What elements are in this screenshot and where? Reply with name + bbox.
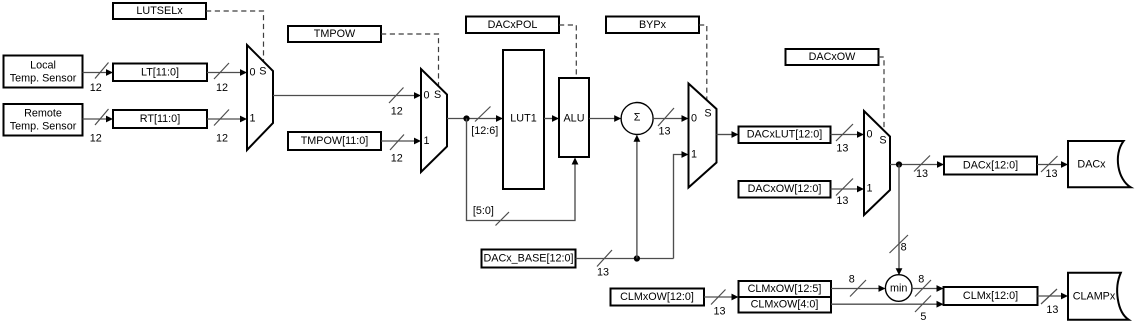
- wire CLMxOW register to split registers: [704, 290, 739, 305]
- config box BYPx: [606, 17, 699, 34]
- register RT[11:0]: [113, 110, 207, 128]
- wire Local sensor to LT register: [83, 63, 114, 79]
- wire LUT1 to ALU: [544, 115, 559, 122]
- svg-text:LT[11:0]: LT[11:0]: [141, 67, 179, 79]
- svg-text:8: 8: [918, 274, 924, 286]
- svg-text:min: min: [890, 283, 907, 295]
- block Local Temp. Sensor: [4, 56, 83, 88]
- wire ALU to adder: [589, 115, 621, 122]
- svg-text:Temp. Sensor: Temp. Sensor: [10, 121, 77, 133]
- svg-text:LUT1: LUT1: [510, 113, 536, 125]
- svg-text:13: 13: [836, 143, 848, 155]
- config box DACxOW: [786, 49, 879, 65]
- svg-text:12: 12: [216, 133, 228, 145]
- svg-text:[12:6]: [12:6]: [471, 125, 498, 137]
- svg-text:13: 13: [658, 126, 670, 138]
- svg-text:13: 13: [916, 168, 928, 180]
- svg-text:DACx: DACx: [1077, 159, 1106, 171]
- svg-text:5: 5: [920, 311, 926, 323]
- svg-text:0: 0: [867, 129, 873, 141]
- mux M4: [864, 111, 890, 215]
- svg-text:BYPx: BYPx: [639, 19, 667, 31]
- register CLMxOW[12:0]: [611, 289, 705, 306]
- dashed wire DACxPOL to ALU: [559, 25, 576, 77]
- config box DACxPOL: [466, 17, 559, 34]
- svg-text:S: S: [259, 65, 266, 77]
- mux M3: [689, 84, 717, 188]
- wire CLMxOW[12:5] to min: [831, 280, 886, 297]
- wire CLMxOW[4:0] to CLMx register: [831, 296, 944, 313]
- output terminal CLAMPx: [1068, 273, 1129, 320]
- wire DACx_BASE bus: [576, 250, 674, 267]
- wire mux M4 output to DACx register: [890, 156, 944, 172]
- svg-text:8: 8: [901, 241, 907, 253]
- register DACxOW[12:0]: [739, 181, 831, 198]
- svg-text:12: 12: [216, 82, 228, 94]
- svg-text:DACxOW: DACxOW: [809, 51, 857, 63]
- output terminal DACx: [1068, 141, 1131, 187]
- svg-text:ALU: ALU: [563, 113, 584, 125]
- wire adder to mux M3 input 0: [653, 108, 688, 126]
- register CLMxOW[4:0]: [739, 297, 832, 313]
- wire mux M4 output down to min: [890, 165, 909, 276]
- svg-text:0: 0: [424, 90, 430, 102]
- wire low bits branch to ALU: [467, 119, 579, 226]
- svg-text:1: 1: [424, 135, 430, 147]
- register DACx_BASE[12:0]: [482, 250, 576, 268]
- svg-text:12: 12: [90, 133, 102, 145]
- svg-text:13: 13: [597, 267, 609, 279]
- adder U-sum: [621, 103, 653, 135]
- svg-text:8: 8: [849, 274, 855, 286]
- wire DACx_BASE to adder bottom: [634, 135, 641, 259]
- svg-text:12: 12: [391, 153, 403, 165]
- node junction DACx_BASE: [634, 255, 640, 261]
- svg-text:Local: Local: [30, 60, 56, 72]
- svg-text:0: 0: [250, 67, 256, 79]
- svg-text:S: S: [434, 89, 441, 101]
- wire RT register to mux M1 input 1: [207, 110, 247, 126]
- svg-text:12: 12: [90, 82, 102, 94]
- node junction on main bus: [463, 115, 469, 121]
- dashed select wire TMPOW to mux M2: [381, 34, 439, 86]
- svg-text:RT[11:0]: RT[11:0]: [140, 113, 180, 125]
- wire mux M1 output to mux M2 input 0: [273, 88, 421, 104]
- dashed select wire BYPx to mux M3: [699, 25, 707, 100]
- register DACxLUT[12:0]: [739, 127, 831, 144]
- svg-text:DACx_BASE[12:0]: DACx_BASE[12:0]: [483, 253, 573, 265]
- svg-text:CLMxOW[4:0]: CLMxOW[4:0]: [751, 299, 819, 311]
- svg-text:LUTSELx: LUTSELx: [136, 5, 183, 17]
- dashed select wire DACxOW to mux M4: [879, 57, 885, 130]
- block Remote Temp. Sensor: [4, 104, 83, 136]
- wire min to CLMx register: [912, 280, 944, 297]
- svg-text:[5:0]: [5:0]: [473, 205, 494, 217]
- wire LT register to mux M1 input 0: [207, 63, 247, 79]
- wire DACxLUT to mux M4 input 0: [831, 124, 865, 141]
- wire CLMx register to CLAMPx output: [1038, 289, 1069, 304]
- register LT[11:0]: [113, 64, 207, 82]
- svg-text:Σ: Σ: [634, 111, 641, 123]
- svg-text:13: 13: [1045, 168, 1057, 180]
- register CLMx[12:0]: [944, 287, 1038, 305]
- svg-text:DACxPOL: DACxPOL: [488, 19, 538, 31]
- svg-text:Remote: Remote: [24, 108, 62, 120]
- wire TMPOW register to mux M2 input 1: [381, 135, 421, 151]
- mux M1: [247, 45, 273, 150]
- svg-text:1: 1: [867, 183, 873, 195]
- register TMPOW[11:0]: [288, 132, 381, 150]
- svg-text:13: 13: [1046, 304, 1058, 316]
- block LUT1: [503, 50, 544, 189]
- svg-text:Temp. Sensor: Temp. Sensor: [10, 73, 77, 85]
- wire mux M3 to DACxLUT register: [717, 131, 739, 138]
- svg-text:TMPOW: TMPOW: [314, 28, 356, 40]
- svg-text:DACxLUT[12:0]: DACxLUT[12:0]: [747, 129, 823, 141]
- svg-text:0: 0: [691, 113, 697, 125]
- node junction mux M4 output: [896, 161, 902, 167]
- config box TMPOW: [288, 26, 381, 42]
- dashed select wire LUTSELx to mux M1: [206, 11, 264, 61]
- svg-text:13: 13: [836, 195, 848, 207]
- min function block: [885, 275, 912, 302]
- svg-text:CLMxOW[12:5]: CLMxOW[12:5]: [748, 283, 822, 295]
- svg-text:1: 1: [250, 113, 256, 125]
- config box LUTSELx: [113, 3, 206, 19]
- mux M2: [421, 69, 447, 172]
- wire DACxOW to mux M4 input 1: [831, 179, 865, 196]
- svg-text:12: 12: [391, 106, 403, 118]
- svg-text:S: S: [879, 134, 886, 146]
- svg-text:CLAMPx: CLAMPx: [1073, 291, 1116, 303]
- svg-text:CLMx[12:0]: CLMx[12:0]: [963, 290, 1018, 302]
- svg-text:TMPOW[11:0]: TMPOW[11:0]: [301, 135, 369, 147]
- svg-text:DACx[12:0]: DACx[12:0]: [963, 160, 1018, 172]
- svg-text:13: 13: [713, 306, 725, 318]
- register DACx[12:0]: [944, 157, 1037, 175]
- wire mux M2 output to LUT1: [447, 107, 503, 122]
- svg-text:DACxOW[12:0]: DACxOW[12:0]: [748, 183, 822, 195]
- register CLMxOW[12:5]: [739, 281, 832, 297]
- svg-text:1: 1: [691, 149, 697, 161]
- wire Remote sensor to RT register: [83, 109, 114, 125]
- wire DACx register to DACx output: [1037, 156, 1068, 172]
- svg-text:CLMxOW[12:0]: CLMxOW[12:0]: [620, 291, 694, 303]
- svg-text:S: S: [704, 108, 711, 120]
- block ALU: [559, 78, 589, 157]
- wire DACx_BASE to mux M3 input 1: [674, 151, 689, 258]
